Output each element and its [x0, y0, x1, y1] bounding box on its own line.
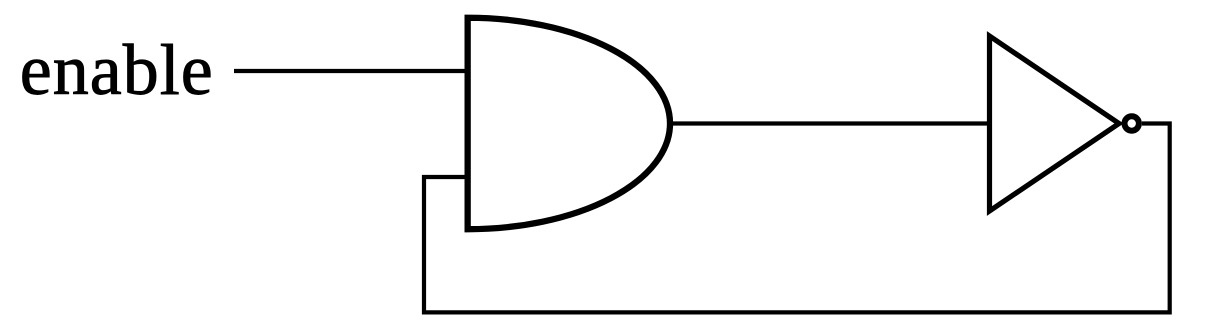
AND gate U1	[468, 18, 670, 229]
inverter U2 triangle	[990, 36, 1120, 211]
wire from enable to AND gate input	[234, 69, 467, 73]
inverter U2 output bubble	[1125, 116, 1139, 130]
wire from AND gate output to inverter input	[670, 121, 988, 125]
svg-text:enable: enable	[20, 30, 214, 110]
feedback wire from inverter output to AND gate lower input	[424, 124, 1170, 313]
